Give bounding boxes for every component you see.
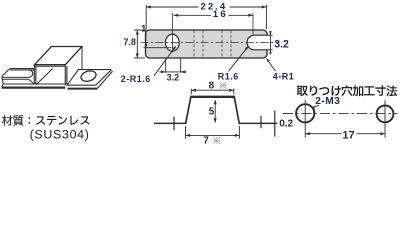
svg-text:5: 5 (209, 107, 215, 118)
top view: bend line 2 (dashed) (202, 31, 204, 58)
top view: left hole (circle R1.6) (165, 34, 179, 51)
3D bracket: left flange slot rounded closed end (28, 70, 33, 78)
svg-text:17: 17 (342, 130, 354, 142)
3D bracket: opening diagonal (left wall bottom receding edge) (36, 69, 53, 85)
dimension 8: dimension line with arrows (191, 89, 234, 91)
dimension 8: extension lines (190, 89, 192, 94)
dimension 7: dimension line with arrows (186, 134, 240, 136)
dimension 5: dimension line with arrows (214, 100, 216, 122)
dimension 22.4: extension lines (145, 5, 147, 29)
top view: bend line 3 (dashed) (221, 31, 223, 58)
mounting view: right hole circle (M3) (377, 106, 394, 123)
dimension 17: dimension line with arrows (305, 133, 341, 135)
mounting view: left hole vertical center line (304, 100, 306, 138)
svg-text:3.2: 3.2 (274, 39, 289, 51)
section view: right tick 1 (260, 116, 262, 128)
dimension 22.4: dimension line with arrows (146, 6, 198, 8)
3D bracket: left flange left end connector (2, 76, 3, 84)
material note: zaishitsu stainless text (2, 115, 90, 126)
3D bracket: right wall front edge (double vertical) (64, 65, 66, 86)
top view: plate (rounded rect, gray) (146, 30, 268, 58)
dimension 3.2 (slot): dimension line with outside arrows (269, 31, 271, 54)
3D bracket: right flange top face (67, 70, 112, 86)
dimension 7.8: dimension line with arrows (136, 30, 138, 58)
svg-text:4-R1: 4-R1 (273, 72, 295, 82)
leader 2-R1.6 (154, 47, 175, 76)
mounting view: left hole circle (M3) (296, 104, 314, 122)
dimension 7.8: extension lines (134, 29, 145, 31)
dimension 8: reference mark (kome) (220, 82, 227, 89)
leader R1.6 (229, 47, 248, 72)
leader 2-M3 (312, 105, 319, 107)
section view: left tick (173, 117, 175, 131)
section view: right tick 2 (0.2 boundary) (274, 111, 276, 137)
mounting view: right hole vertical center line (384, 100, 386, 137)
top view: bend line 1 (dashed) (193, 31, 195, 58)
svg-text:3.2: 3.2 (167, 72, 180, 82)
3D bracket: left flange slot front edge (double line) (2, 76, 28, 78)
leader 4-R1 (267, 59, 276, 72)
3D bracket: left flange slot front diagonal (29, 79, 35, 84)
svg-text:2-R1.6: 2-R1.6 (121, 74, 151, 84)
3D bracket: left flange slot back edge (double line) (10, 68, 35, 70)
top view: horizontal center line (dash-dot) (141, 42, 279, 44)
svg-text:7.8: 7.8 (123, 37, 136, 47)
dimension 7: reference mark (kome) (213, 137, 220, 144)
svg-text:R1.6: R1.6 (218, 72, 239, 82)
dimension 3.2 (hole dia): dimension line with outside arrows (160, 71, 187, 73)
svg-text:8: 8 (209, 81, 215, 92)
top view: vertical ext line at slot for 16 (252, 13, 254, 35)
dimension 1: lower reference line (144, 47, 172, 49)
svg-text:7: 7 (203, 136, 209, 147)
dimension 7: extension lines (185, 126, 187, 139)
3D bracket: hat top face (35, 47, 83, 65)
dimension 3.2 (hole dia): extension lines (165, 59, 167, 73)
svg-text:0.2: 0.2 (279, 119, 293, 130)
3D bracket: right wall bottom receding edge (67, 70, 78, 85)
3D bracket: left flange bottom front edge (double line) (3, 83, 65, 85)
3D bracket: hat back right vertical edge (81, 47, 83, 70)
3D bracket: right flange hole (ellipse) (80, 69, 98, 83)
dimension 3.2 (slot): extension lines (268, 34, 273, 36)
dimension 16: dimension line with arrows (174, 14, 212, 16)
top view: open slot (white, R1.6 end) (247, 35, 268, 50)
top view: bend line 4 (dashed) (230, 31, 232, 58)
3D bracket: right flange front edge (double line) (67, 84, 96, 86)
dimension 1: dimension line with arrows (145, 29, 147, 48)
mounting view: horizontal center line (dash-dot) (283, 113, 398, 115)
svg-text:16: 16 (213, 9, 228, 20)
top view: vertical center line through hole / ext for 16 (172, 13, 174, 53)
section view: base line right segment (238, 122, 277, 124)
3D bracket: left wall front edge (double vertical) (33, 65, 35, 85)
mounting view: title (torit suke ana kakou sunpou) (297, 85, 398, 96)
section view: hat profile box (186, 96, 240, 124)
svg-text:(SUS304): (SUS304) (30, 127, 90, 141)
section view: base line left segment (154, 122, 185, 124)
3D bracket: left flange slot left diagonal (2, 69, 10, 77)
3D bracket: hat front band (sheet thickness) (35, 65, 66, 67)
